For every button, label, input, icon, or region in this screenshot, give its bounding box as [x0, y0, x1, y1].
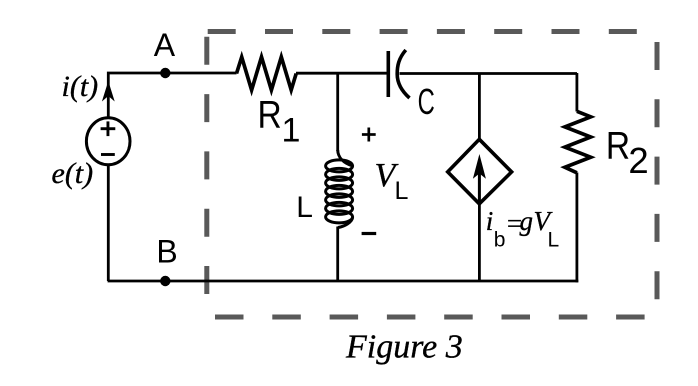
plus sign in source	[101, 121, 116, 136]
wire R2 branch upper corner	[576, 73, 579, 112]
svg-text:C: C	[418, 82, 435, 122]
svg-text:1: 1	[282, 111, 301, 149]
svg-text:e(t): e(t)	[52, 157, 94, 190]
current arrow i(t)	[102, 81, 115, 102]
voltage source e(t) circle	[86, 118, 130, 165]
svg-text:b: b	[494, 229, 506, 252]
bottom wire (node B rail)	[108, 280, 579, 283]
wire top middle (R1 to capacitor)	[296, 72, 387, 75]
minus polarity mark V_L	[362, 232, 377, 235]
resistor R1 zigzag	[237, 57, 297, 90]
svg-text:L: L	[395, 177, 409, 205]
wire inductor branch lower	[336, 227, 339, 282]
inductor L coil	[326, 150, 353, 228]
svg-text:A: A	[154, 27, 176, 63]
minus sign in source	[101, 153, 115, 156]
dashed two-port network boundary box	[207, 32, 662, 318]
resistor R2 zigzag	[565, 111, 591, 173]
svg-text:2: 2	[628, 140, 648, 181]
svg-text:L: L	[296, 191, 313, 224]
wire dependent source branch upper	[478, 73, 481, 140]
svg-text:B: B	[156, 234, 177, 270]
arrow inside dependent source	[478, 172, 481, 203]
svg-text:i: i	[486, 206, 494, 236]
plus polarity mark V_L	[362, 128, 376, 142]
wire top right (capacitor to R2 corner)	[400, 72, 578, 75]
wire dependent source branch lower	[478, 204, 481, 282]
capacitor C curved plate	[397, 50, 409, 98]
node A dot	[160, 68, 170, 78]
svg-text:g: g	[520, 206, 534, 236]
svg-text:Figure 3: Figure 3	[345, 329, 463, 366]
node B dot	[160, 276, 170, 286]
dependent current source diamond	[448, 139, 512, 204]
svg-text:R: R	[606, 123, 630, 167]
wire left branch top segment (source to node A corner)	[108, 73, 236, 119]
svg-text:i(t): i(t)	[62, 70, 99, 103]
svg-text:L: L	[548, 229, 560, 252]
wire R2 branch lower	[576, 173, 579, 283]
capacitor C left plate	[386, 51, 390, 97]
wire left branch bottom segment	[107, 165, 110, 282]
svg-text:R: R	[258, 92, 282, 136]
wire inductor branch upper	[336, 73, 339, 151]
